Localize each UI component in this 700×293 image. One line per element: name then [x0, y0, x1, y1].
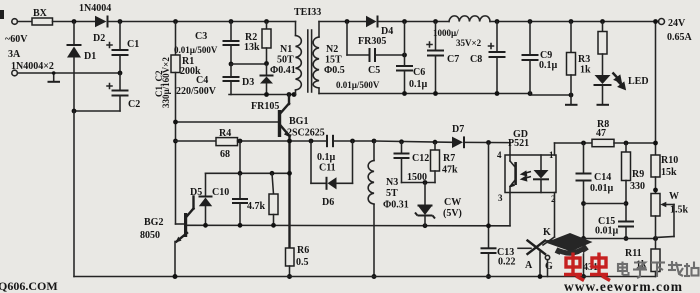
watermark black cap swoosh [546, 233, 593, 252]
svg-text:8050: 8050 [140, 230, 160, 241]
svg-text:Φ0.41: Φ0.41 [270, 65, 296, 76]
svg-text:FR105: FR105 [251, 101, 279, 112]
svg-text:LED: LED [628, 76, 649, 87]
winding N2 15T [318, 22, 320, 38]
svg-text:www.eeworm.com: www.eeworm.com [564, 279, 683, 293]
svg-text:13k: 13k [244, 42, 260, 53]
D5 C10 R5 row wire [206, 172, 290, 174]
svg-text:D3: D3 [242, 77, 254, 88]
svg-text:TEI33: TEI33 [294, 7, 321, 18]
wire to R8 [555, 142, 593, 144]
svg-text:24V: 24V [668, 18, 686, 29]
svg-text:50T: 50T [277, 55, 294, 66]
svg-text:(5V): (5V) [443, 208, 462, 219]
svg-text:BG1: BG1 [289, 116, 308, 127]
resistor R6 0.5 [286, 248, 295, 266]
svg-text:D7: D7 [452, 124, 464, 135]
opto LED [540, 155, 542, 170]
svg-text:W: W [669, 191, 679, 202]
svg-text:A: A [525, 260, 533, 271]
resistor R11 1k [651, 249, 660, 272]
LED series resistor [600, 19, 605, 24]
node [264, 19, 269, 24]
svg-text:Φ0.31: Φ0.31 [383, 200, 409, 211]
wire C12-R7 bottom [402, 182, 436, 184]
node [118, 19, 123, 24]
svg-text:220/500V: 220/500V [176, 86, 217, 97]
svg-text:0.1µ: 0.1µ [539, 60, 558, 71]
left rail down [73, 111, 75, 277]
resistor R8 47 [592, 139, 614, 146]
svg-text:Φ0.5: Φ0.5 [324, 65, 345, 76]
watermark red glyph chong 2 [590, 253, 610, 281]
svg-text:D5: D5 [190, 187, 202, 198]
optocoupler GD P521 [505, 155, 556, 193]
fuse BX [32, 18, 53, 25]
svg-text:Q606.COM: Q606.COM [0, 279, 58, 293]
svg-text:3A: 3A [8, 49, 21, 60]
ground symbol under LED [597, 104, 610, 106]
svg-text:0.01µ/500V: 0.01µ/500V [336, 80, 380, 90]
transformer core [307, 30, 309, 92]
capacitor C10 [239, 173, 241, 198]
svg-text:1k: 1k [580, 65, 591, 76]
wire [53, 21, 96, 23]
svg-text:C3: C3 [195, 31, 207, 42]
svg-text:R11: R11 [625, 248, 642, 259]
node [229, 19, 234, 24]
capacitor C13 0.22 [481, 247, 497, 249]
svg-text:N3: N3 [386, 177, 398, 188]
diode D7 [452, 137, 463, 148]
secondary top rail [319, 21, 366, 23]
watermark gray char zi [633, 263, 647, 279]
svg-text:C6: C6 [413, 67, 425, 78]
svg-text:N1: N1 [280, 44, 292, 55]
svg-text:1000µ/: 1000µ/ [433, 28, 459, 38]
opto phototransistor [514, 162, 517, 185]
svg-text:BX: BX [33, 8, 48, 19]
zener CW 5V [424, 183, 426, 206]
watermark gray char zai [668, 261, 683, 276]
node [229, 62, 234, 67]
svg-text:1N4004: 1N4004 [79, 3, 111, 14]
svg-text:47k: 47k [442, 165, 458, 176]
watermark gray char dian [618, 262, 629, 276]
svg-text:N2: N2 [326, 44, 338, 55]
resistor R7 47k [434, 142, 436, 150]
svg-text:4: 4 [497, 150, 502, 160]
K node wire [584, 238, 656, 240]
svg-text:0.01µ: 0.01µ [595, 226, 619, 237]
diode D4 FR305 [366, 16, 377, 27]
LED [595, 75, 611, 84]
svg-text:K: K [543, 227, 551, 238]
svg-text:0.65A: 0.65A [667, 32, 693, 43]
corner scan mark [0, 10, 4, 19]
winding N3 5T [373, 141, 375, 161]
svg-text:1.5k: 1.5k [670, 205, 689, 216]
capacitor C4 220/500V [230, 64, 232, 77]
svg-text:0.5: 0.5 [296, 257, 309, 268]
chassis ground tick [53, 73, 55, 81]
diode D3 FR105 [266, 64, 268, 76]
right rail [655, 22, 657, 156]
svg-text:C2: C2 [128, 99, 140, 110]
capacitor C1 [119, 22, 121, 50]
diode D5 [205, 173, 207, 196]
svg-text:5T: 5T [386, 188, 398, 199]
capacitor C15 0.01u [618, 221, 634, 223]
capacitor C9 0.1u [528, 19, 533, 24]
capacitor C3 0.01u/500V [230, 22, 232, 41]
potentiometer W 1.5k [651, 194, 660, 217]
svg-text:FR305: FR305 [358, 36, 386, 47]
svg-text:2SC2625: 2SC2625 [287, 128, 325, 139]
middle common rail [187, 224, 510, 227]
G node circle [545, 255, 549, 259]
svg-text:CW: CW [444, 197, 461, 208]
svg-text:C8: C8 [470, 54, 482, 65]
node [173, 19, 178, 24]
wire [17, 21, 32, 23]
svg-text:0.1µ: 0.1µ [409, 79, 428, 90]
svg-text:C12: C12 [412, 153, 429, 164]
wire top rail to transformer [109, 21, 296, 23]
svg-text:C14: C14 [594, 172, 611, 183]
pin2 to K wire [554, 193, 556, 238]
svg-text:68: 68 [220, 149, 230, 160]
primary switching node wire [229, 94, 296, 96]
filter choke [449, 16, 490, 22]
svg-text:15T: 15T [325, 55, 342, 66]
capacitor C7 1000u/35V [433, 19, 438, 24]
resistor R3 1k [569, 19, 574, 24]
resistor R5 4.7k [272, 173, 274, 194]
svg-text:330µ/160V×2: 330µ/160V×2 [161, 57, 171, 108]
diode D1 1N4004 [73, 22, 75, 46]
pin1 stub [554, 143, 556, 155]
thyristor 431 wire [518, 247, 531, 249]
svg-text:C4: C4 [196, 75, 208, 86]
secondary ground rail [319, 93, 530, 95]
diode D2 1N4004 [95, 16, 107, 27]
svg-text:47: 47 [596, 128, 606, 139]
svg-text:C5: C5 [368, 65, 380, 76]
svg-text:0.01µ: 0.01µ [590, 183, 614, 194]
K to C14 node diagonal [545, 239, 584, 242]
capacitor C8 [495, 19, 500, 24]
capacitor C5 snubber 0.01u/500V [346, 22, 348, 56]
vertical wireB to D5/C10 row [239, 141, 241, 173]
svg-text:3: 3 [498, 193, 503, 203]
opto light arrows [522, 172, 532, 181]
resistor R10 15k [651, 155, 660, 177]
wire snubber [231, 63, 267, 65]
capacitor C6 0.1u [402, 19, 407, 24]
terminal input bottom [12, 70, 18, 76]
svg-text:R3: R3 [578, 54, 590, 65]
capacitor C12 1500 [401, 142, 403, 153]
svg-text:15k: 15k [661, 167, 677, 178]
winding N1 50T [295, 22, 297, 36]
svg-text:0.1µ: 0.1µ [317, 152, 336, 163]
node [345, 19, 350, 24]
wire C14-R9 [584, 203, 627, 205]
svg-text:R9: R9 [632, 169, 644, 180]
svg-text:C11: C11 [319, 163, 336, 174]
thyristor 431 symbol [528, 241, 546, 255]
resistor R1 200k [175, 22, 177, 56]
svg-text:R6: R6 [297, 245, 309, 256]
svg-text:P521: P521 [508, 138, 529, 149]
capacitor C14 0.01u [583, 143, 585, 173]
svg-text:C1: C1 [127, 39, 139, 50]
svg-text:1: 1 [549, 150, 554, 160]
capacitor C2 [119, 73, 121, 90]
svg-text:~60V: ~60V [5, 34, 28, 45]
svg-text:R4: R4 [219, 128, 231, 139]
svg-text:0.01µ/500V: 0.01µ/500V [174, 45, 218, 55]
svg-text:330: 330 [630, 181, 645, 192]
LED emission arrows [613, 73, 625, 89]
bottom rail [74, 276, 656, 278]
svg-text:D2: D2 [93, 33, 105, 44]
svg-text:D1: D1 [84, 51, 96, 62]
wire A base drive [176, 121, 279, 123]
output terminal 24V [659, 19, 665, 25]
diode D6 bypass [310, 141, 312, 183]
node [72, 19, 77, 24]
svg-text:R10: R10 [661, 155, 678, 166]
svg-text:R7: R7 [443, 153, 455, 164]
resistor R4 68 [216, 138, 238, 146]
terminal input top [12, 19, 18, 25]
svg-text:35V×2: 35V×2 [456, 38, 482, 48]
svg-text:G: G [545, 261, 553, 272]
wire B emitter/feedback row [173, 139, 178, 144]
svg-text:C7: C7 [447, 54, 459, 65]
svg-text:BG2: BG2 [144, 217, 163, 228]
resistor R9 330 [625, 143, 627, 152]
svg-text:0.22: 0.22 [498, 257, 516, 268]
watermark gray char xia [651, 263, 665, 278]
capacitor C11 0.1u [326, 135, 328, 147]
svg-text:1N4004×2: 1N4004×2 [11, 61, 54, 72]
wire B right portion [374, 141, 452, 142]
ground symbol under R3 [570, 95, 572, 104]
transistor BG2 8050 [176, 223, 185, 225]
watermark gray char zhan [684, 262, 699, 277]
svg-text:D6: D6 [322, 197, 334, 208]
vertical D7-node to C13 [488, 143, 490, 248]
svg-text:4.7k: 4.7k [247, 201, 266, 212]
svg-text:C10: C10 [212, 187, 229, 198]
wire [17, 72, 120, 74]
watermark red glyph chong 1 [564, 253, 584, 281]
wire C2 bottom to left line [74, 110, 120, 112]
resistor R2 13k [266, 22, 268, 30]
transistor BG1 2SC2625 [278, 110, 281, 137]
